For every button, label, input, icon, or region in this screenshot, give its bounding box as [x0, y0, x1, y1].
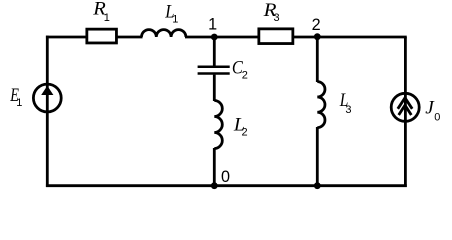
wire: L1 to node 1 to R3 — [185, 36, 260, 39]
node 0 junction dot — [211, 182, 218, 189]
capacitor C2 top plate — [198, 65, 230, 68]
inductor L3 coil — [317, 82, 325, 128]
wire: bottom rail — [46, 184, 407, 187]
wire: node 2 branch down to L3 coil — [316, 37, 319, 82]
inductor L2 coil — [214, 101, 222, 149]
wire: right branch vertical (through J0) — [404, 37, 407, 187]
resistor R1 — [87, 29, 117, 43]
svg-text:2: 2 — [312, 16, 321, 34]
svg-text:1: 1 — [104, 12, 110, 24]
source E1 arrowhead — [41, 86, 53, 95]
junction dot bottom of L3 branch — [314, 182, 321, 189]
node 1 junction dot — [211, 34, 218, 41]
wire: left branch vertical (through E1) — [46, 36, 49, 187]
inductor L1 coil — [142, 30, 186, 37]
source J0 arrow upper chevron — [398, 98, 412, 109]
svg-text:3: 3 — [345, 104, 351, 116]
capacitor C2 bottom plate — [198, 72, 230, 75]
wire: R3 to node 2 to top-right corner — [293, 36, 407, 39]
wire: R1 to L1 — [117, 36, 143, 39]
wire: top rail left segment (top-left corner to R1) — [46, 36, 88, 39]
svg-text:2: 2 — [242, 69, 248, 81]
svg-text:1: 1 — [172, 14, 178, 26]
source J0 arrow lower chevron — [399, 105, 412, 115]
svg-text:1: 1 — [208, 16, 217, 34]
wire: C2 to L2 coil — [213, 75, 216, 101]
source J0 circle — [391, 93, 419, 121]
node 2 junction dot — [314, 33, 321, 40]
svg-text:0: 0 — [221, 168, 230, 186]
svg-text:1: 1 — [16, 97, 22, 109]
resistor R3 — [259, 29, 293, 44]
svg-text:3: 3 — [274, 12, 280, 24]
svg-text:0: 0 — [434, 111, 440, 123]
wire: L2 coil to bottom rail — [213, 148, 216, 186]
svg-text:2: 2 — [242, 127, 248, 139]
source E1 circle — [33, 84, 61, 112]
wire: L3 coil to bottom rail — [316, 127, 319, 186]
wire: node 1 branch down to C2 — [213, 37, 216, 66]
